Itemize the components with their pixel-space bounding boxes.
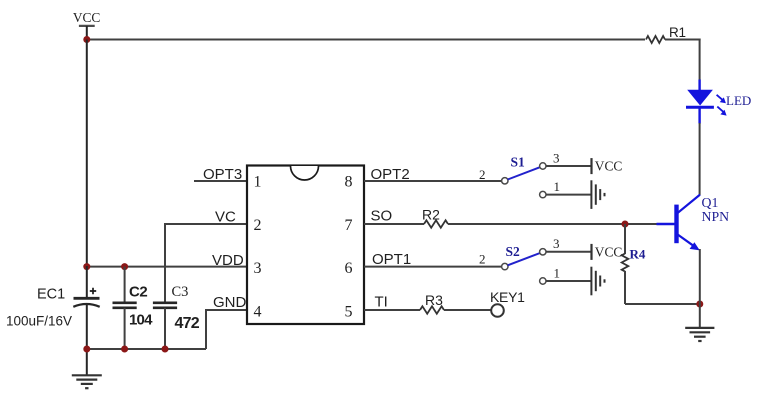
ground (Q1 emitter) [685,328,714,341]
svg-text:TI: TI [375,294,388,311]
wire S1 pin3 to VCC [546,165,592,167]
svg-text:R2: R2 [422,207,440,223]
junction base / R4 [622,221,629,228]
wire VCC stem [86,26,88,41]
svg-text:VCC: VCC [595,244,623,259]
svg-text:OPT1: OPT1 [372,251,411,268]
capacitor C2 [113,267,154,350]
wire SO to R2 [364,223,424,225]
wire emitter node to ground [699,304,701,328]
svg-text:2: 2 [479,252,486,267]
wire OPT2 to S1 [364,180,502,182]
svg-text:VC: VC [215,209,236,226]
wire OPT3 stub [194,180,247,182]
svg-text:1: 1 [554,265,561,280]
transistor Q1 [657,195,730,251]
svg-text:EC1: EC1 [37,287,65,303]
svg-text:1: 1 [254,174,262,191]
junction C2 top [121,263,128,270]
resistor R2 [422,207,448,228]
resistor R4 [622,224,646,304]
svg-text:472: 472 [175,315,200,332]
svg-text:R1: R1 [669,25,686,40]
svg-text:7: 7 [345,217,353,234]
svg-text:5: 5 [345,304,353,321]
svg-text:NPN: NPN [702,209,730,224]
junction top rail [83,36,90,43]
LED diode [686,80,751,124]
svg-text:2: 2 [254,217,262,234]
capacitor C3 [153,224,200,350]
power port VCC (S1) [592,158,623,174]
ground (bottom left) [72,375,102,388]
IC U1 [247,166,364,325]
svg-text:104: 104 [129,312,153,329]
wire S1 pin1 to ground [546,194,591,196]
wire bottom rail [87,348,206,350]
wire R3 to KEY1 [444,309,491,311]
junction bottom rail C3 [162,346,169,353]
svg-text:100uF/16V: 100uF/16V [6,314,72,329]
switch S1 [479,150,560,197]
svg-text:LED: LED [726,93,751,108]
capacitor EC1 [6,266,100,350]
power port VCC (S2) [592,244,623,260]
junction bottom rail EC1 [83,346,90,353]
svg-text:8: 8 [345,174,353,191]
svg-text:R4: R4 [630,247,646,262]
wire EC1 to ground [86,349,88,375]
svg-text:VCC: VCC [595,159,623,174]
wire TI to R3 [364,309,420,311]
resistor R1 [646,25,686,43]
wire VDD line [87,266,247,268]
wire LED to Q1 collector [699,123,701,195]
junction bottom rail C2 [121,346,128,353]
svg-text:Q1: Q1 [702,195,719,210]
switch S2 [479,236,560,284]
ground (S2, rotated) [591,267,604,296]
svg-text:VDD: VDD [212,252,244,269]
wire OPT1 to S2 [364,266,502,268]
wire emitter down [699,249,701,304]
svg-text:6: 6 [345,260,353,277]
svg-text:C3: C3 [172,284,189,300]
wire R2 to base junction [448,223,657,225]
svg-text:S1: S1 [511,154,526,169]
svg-text:4: 4 [254,304,262,321]
svg-text:KEY1: KEY1 [490,289,525,305]
wire top rail to R1 [87,39,645,41]
junction VDD rail [83,263,90,270]
wire corner down to LED [699,39,701,81]
connector KEY1 [490,289,525,317]
wire VC [164,223,247,225]
wire S2 pin3 to VCC [546,251,592,253]
svg-text:3: 3 [553,236,560,251]
wire left rail VCC down to VDD junction [86,40,88,268]
svg-text:R3: R3 [425,292,443,308]
svg-text:C2: C2 [129,284,147,301]
ground (S1, rotated) [591,180,604,209]
wire R1 to corner [665,39,701,41]
svg-text:VCC: VCC [73,10,101,25]
svg-text:SO: SO [371,208,393,225]
wire R4 to emitter node [625,303,700,305]
wire S2 pin1 to ground [546,280,591,282]
power port VCC (top left) [73,10,101,26]
svg-text:1: 1 [554,179,561,194]
svg-text:3: 3 [553,150,560,165]
svg-text:3: 3 [254,260,262,277]
resistor R3 [420,292,444,314]
svg-text:GND: GND [213,294,247,311]
junction emitter node [696,301,703,308]
svg-text:2: 2 [479,167,486,182]
svg-text:S2: S2 [506,244,521,259]
wire GND pin riser [206,310,247,349]
